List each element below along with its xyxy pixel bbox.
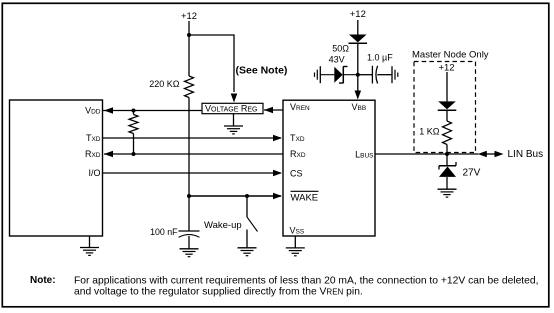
svg-text:RXD: RXD xyxy=(85,149,101,159)
svg-text:RXD: RXD xyxy=(290,149,306,159)
svg-text:For applications with current: For applications with current requiremen… xyxy=(74,276,539,287)
svg-text:Note:: Note: xyxy=(30,275,56,286)
svg-text:+12: +12 xyxy=(350,9,366,20)
svg-text:VSS: VSS xyxy=(290,226,305,236)
svg-text:I/O: I/O xyxy=(88,168,100,178)
svg-text:(See Note): (See Note) xyxy=(236,65,288,77)
svg-text:Master Node Only: Master Node Only xyxy=(412,50,489,61)
svg-text:Wake-up: Wake-up xyxy=(204,220,242,231)
svg-text:VBB: VBB xyxy=(352,102,367,112)
svg-text:50Ω: 50Ω xyxy=(332,44,349,54)
svg-text:43V: 43V xyxy=(329,55,345,65)
svg-text:1 KΩ: 1 KΩ xyxy=(419,127,440,137)
svg-text:VDD: VDD xyxy=(85,106,101,116)
svg-text:100 nF: 100 nF xyxy=(150,227,178,237)
svg-text:1.0 µF: 1.0 µF xyxy=(367,53,393,63)
svg-text:and voltage to the regulator s: and voltage to the regulator supplied di… xyxy=(74,287,363,298)
svg-text:TXD: TXD xyxy=(86,133,101,143)
svg-text:220 KΩ: 220 KΩ xyxy=(149,79,180,89)
svg-text:+12: +12 xyxy=(438,63,454,74)
svg-text:VOLTAGE REG: VOLTAGE REG xyxy=(205,104,258,114)
svg-text:WAKE: WAKE xyxy=(291,192,319,203)
svg-text:VREN: VREN xyxy=(290,102,310,112)
svg-text:CS: CS xyxy=(290,169,303,179)
svg-text:LBUS: LBUS xyxy=(355,149,374,159)
svg-text:27V: 27V xyxy=(463,168,481,179)
svg-text:+12: +12 xyxy=(181,11,197,22)
svg-text:TXD: TXD xyxy=(290,133,305,143)
svg-text:LIN Bus: LIN Bus xyxy=(508,149,544,160)
